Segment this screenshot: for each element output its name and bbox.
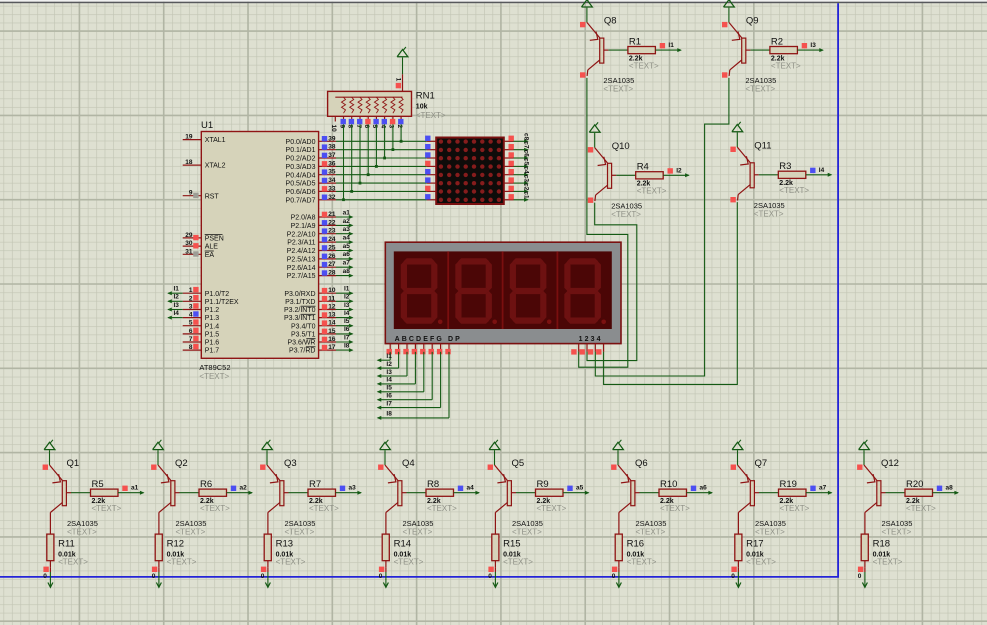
- svg-text:Q2: Q2: [175, 458, 188, 469]
- net label a4: [343, 235, 351, 242]
- svg-text:0: 0: [731, 573, 735, 580]
- svg-text:<TEXT>: <TEXT>: [403, 527, 433, 536]
- pin 30 (ALE): [183, 240, 219, 251]
- matrix right pin c8: [504, 136, 514, 142]
- wire R8 to net a4: [454, 491, 481, 495]
- wire 7seg segment to net I6: [377, 352, 433, 402]
- pin square below R14: [379, 567, 384, 572]
- net label I1: [344, 286, 350, 293]
- svg-text:<TEXT>: <TEXT>: [176, 527, 206, 536]
- svg-text:c3: c3: [522, 175, 529, 183]
- resistor R19: [759, 489, 806, 496]
- svg-text:P2.6/A14: P2.6/A14: [287, 265, 316, 272]
- net label I8: [344, 343, 350, 350]
- wire Q9 collector to 7seg digit 3: [595, 78, 729, 376]
- resistor R2: [750, 47, 797, 54]
- svg-text:P3.0/RXD: P3.0/RXD: [284, 291, 315, 298]
- svg-text:9: 9: [338, 125, 345, 129]
- type 2SA1035: [512, 519, 543, 528]
- wire P3.7 to net I8: [336, 348, 354, 352]
- RN1 pin 1: [394, 74, 402, 91]
- svg-text:P0.2/AD2: P0.2/AD2: [286, 156, 316, 163]
- power terminal Q5: [489, 440, 500, 450]
- power terminal Q1: [44, 440, 55, 450]
- svg-text:<TEXT>: <TEXT>: [660, 504, 690, 513]
- svg-text:12: 12: [328, 304, 336, 311]
- svg-text:13: 13: [328, 312, 336, 319]
- net label a8: [937, 485, 953, 492]
- matrix right pin c1: [504, 194, 514, 200]
- svg-text:11: 11: [328, 295, 335, 302]
- net label I3: [802, 42, 817, 49]
- svg-text:a4: a4: [343, 235, 351, 242]
- svg-text:<TEXT>: <TEXT>: [636, 527, 666, 536]
- svg-text:P0.5/AD5: P0.5/AD5: [286, 181, 316, 188]
- svg-text:<TEXT>: <TEXT>: [627, 558, 657, 567]
- svg-text:c6: c6: [522, 150, 529, 158]
- text placeholder Q12: [882, 527, 912, 536]
- svg-text:Q3: Q3: [284, 458, 297, 469]
- svg-text:19: 19: [185, 134, 193, 141]
- svg-text:3: 3: [189, 304, 193, 311]
- wire 7seg segment to net I7: [377, 352, 441, 410]
- svg-text:I1: I1: [386, 353, 392, 360]
- svg-text:<TEXT>: <TEXT>: [771, 62, 801, 71]
- svg-text:10: 10: [328, 287, 336, 294]
- value 0.01k: [167, 551, 185, 558]
- resistor R9: [516, 489, 563, 496]
- wire RN1 pin 8 to P0.6: [351, 124, 353, 191]
- text placeholder R7: [309, 504, 339, 513]
- net label I2: [386, 361, 392, 368]
- ground: [383, 580, 388, 588]
- svg-text:R16: R16: [627, 538, 644, 549]
- svg-text:<TEXT>: <TEXT>: [512, 527, 542, 536]
- RN1 pin 3: [388, 116, 396, 128]
- net label I1: [660, 42, 675, 49]
- text placeholder Q7: [755, 527, 785, 536]
- net label I6: [344, 326, 350, 333]
- wire R20 to net a8: [933, 491, 960, 495]
- resistor R6: [180, 489, 227, 496]
- text placeholder Q9: [745, 85, 775, 94]
- svg-text:c8: c8: [522, 133, 529, 141]
- wire P3.3 to net I4: [336, 316, 354, 320]
- value 2.2k: [92, 498, 106, 505]
- pin 11 (P3.1/TXD): [285, 295, 336, 306]
- svg-text:P2.4/A12: P2.4/A12: [287, 248, 316, 255]
- net label I7: [344, 334, 350, 341]
- RN1 pin 2: [396, 116, 404, 128]
- 7seg digit 4: [564, 258, 606, 324]
- net label I4: [386, 377, 392, 384]
- svg-text:<TEXT>: <TEXT>: [67, 527, 97, 536]
- transistor Q10 (2SA1035): [588, 133, 616, 203]
- power terminal Q3: [262, 440, 273, 450]
- svg-text:0: 0: [488, 573, 492, 580]
- svg-text:24: 24: [328, 236, 336, 243]
- svg-text:I6: I6: [344, 326, 350, 333]
- svg-text:P3.2/INT0: P3.2/INT0: [284, 307, 316, 314]
- svg-text:R13: R13: [276, 538, 293, 549]
- wire R18 to ground: [864, 567, 866, 580]
- svg-text:a7: a7: [819, 485, 827, 492]
- matrix left pin row 7: [425, 186, 436, 192]
- label R16: [627, 538, 644, 549]
- wire R12 to ground: [158, 567, 160, 580]
- wire R6 to net a2: [227, 491, 254, 495]
- svg-text:31: 31: [185, 248, 193, 255]
- svg-text:28: 28: [328, 270, 336, 277]
- net label a3: [343, 226, 351, 233]
- net label I4: [174, 310, 180, 317]
- svg-text:0: 0: [43, 573, 47, 580]
- net label I3: [174, 302, 180, 309]
- ground: [156, 580, 161, 588]
- svg-text:<TEXT>: <TEXT>: [629, 62, 659, 71]
- svg-text:2: 2: [396, 125, 403, 129]
- power terminal Q12: [859, 440, 870, 450]
- junction: [400, 140, 403, 143]
- svg-text:c1: c1: [522, 191, 529, 199]
- wire P3.0 to net I1: [336, 291, 354, 295]
- net label 0 (Q5 ground): [488, 573, 492, 580]
- 7seg digit 2: [455, 258, 497, 324]
- label Q5: [512, 458, 525, 469]
- net label a1: [343, 209, 351, 216]
- svg-text:ALE: ALE: [205, 244, 219, 251]
- matrix left pin row 1: [425, 136, 436, 142]
- svg-text:P1.2: P1.2: [205, 307, 220, 314]
- svg-text:R18: R18: [873, 538, 890, 549]
- svg-text:<TEXT>: <TEXT>: [906, 504, 936, 513]
- svg-text:P2.0/A8: P2.0/A8: [291, 215, 316, 222]
- svg-text:<TEXT>: <TEXT>: [637, 187, 667, 196]
- svg-text:Q4: Q4: [402, 458, 415, 469]
- svg-text:a1: a1: [131, 485, 139, 492]
- text placeholder R11: [58, 558, 88, 567]
- type 2SA1035: [754, 201, 785, 210]
- svg-text:3: 3: [388, 125, 395, 129]
- pin square below R13: [261, 567, 266, 572]
- wire RN1 pin 4 to P0.2: [384, 124, 386, 158]
- svg-text:39: 39: [328, 135, 336, 142]
- power terminal above RN1: [397, 47, 408, 57]
- svg-text:R1: R1: [629, 36, 641, 47]
- matrix right pin c4: [504, 169, 514, 175]
- svg-text:34: 34: [328, 177, 336, 184]
- svg-text:P1.7: P1.7: [205, 348, 220, 355]
- svg-text:I3: I3: [810, 42, 816, 49]
- wire P3.4 to net I5: [336, 324, 354, 328]
- wire 7seg segment to net I1: [377, 352, 391, 362]
- pin 31 (EA): [183, 248, 215, 259]
- wire P3.2 to net I3: [336, 308, 354, 312]
- net label a6: [691, 485, 707, 492]
- type 2SA1035: [611, 201, 642, 210]
- resistor R7: [289, 489, 336, 496]
- svg-text:<TEXT>: <TEXT>: [416, 111, 446, 120]
- svg-text:<TEXT>: <TEXT>: [427, 504, 457, 513]
- svg-text:37: 37: [328, 152, 336, 159]
- svg-text:<TEXT>: <TEXT>: [754, 209, 784, 218]
- wire P2.5 to net a6: [336, 257, 353, 261]
- 7seg digit select pin 2: [580, 344, 588, 355]
- text placeholder U1: [199, 372, 229, 381]
- wire RN1 pin 9 to P0.7: [343, 124, 345, 200]
- svg-text:a3: a3: [343, 226, 351, 233]
- transistor Q4 (2SA1035): [378, 450, 406, 512]
- transistor Q11 (2SA1035): [730, 132, 758, 202]
- transistor Q2 (2SA1035): [151, 450, 179, 512]
- svg-text:33: 33: [328, 185, 336, 192]
- svg-text:7: 7: [355, 125, 362, 129]
- wire P1.0 to net I1: [167, 291, 183, 295]
- 7seg digit 1: [401, 258, 443, 324]
- svg-text:<TEXT>: <TEXT>: [611, 210, 641, 219]
- label R7: [309, 479, 321, 490]
- svg-text:Q5: Q5: [512, 458, 525, 469]
- pin square below R16: [612, 567, 617, 572]
- resistor R1: [608, 47, 655, 54]
- svg-text:Q12: Q12: [881, 458, 899, 469]
- power terminal Q10: [589, 122, 600, 132]
- matrix right pin c6: [504, 152, 514, 158]
- LED matrix display MATRIX-8X8: [436, 138, 504, 205]
- wire Q11 collector to 7seg digit 4: [604, 202, 738, 384]
- svg-text:30: 30: [185, 240, 193, 247]
- label R17: [746, 538, 763, 549]
- svg-text:R4: R4: [637, 162, 649, 173]
- 7seg digit select pin 3: [588, 344, 596, 355]
- matrix left pin row 4: [425, 161, 436, 167]
- svg-text:<TEXT>: <TEXT>: [199, 372, 229, 381]
- svg-text:AT89C52: AT89C52: [199, 363, 230, 372]
- wire matrix to net c1: [514, 198, 529, 202]
- label R5: [92, 479, 104, 490]
- text placeholder Q5: [512, 527, 542, 536]
- net label c3: [522, 175, 529, 183]
- net label a7: [343, 260, 351, 267]
- value 0.01k: [276, 551, 294, 558]
- transistor Q9 (2SA1035): [722, 8, 750, 78]
- net label 0 (Q1 ground): [43, 573, 47, 580]
- resistor R12: [155, 512, 162, 567]
- label Q8: [604, 16, 617, 27]
- net label 0 (Q2 ground): [152, 573, 156, 580]
- wire P0.2 bus to matrix row: [336, 157, 427, 159]
- ground: [265, 580, 270, 588]
- net label 0 (Q7 ground): [731, 573, 735, 580]
- label R8: [427, 479, 439, 490]
- svg-text:<TEXT>: <TEXT>: [745, 85, 775, 94]
- text placeholder R9: [537, 504, 567, 513]
- pin 33 (P0.6/AD6): [286, 185, 336, 196]
- label R3: [779, 161, 791, 172]
- power terminal Q6: [613, 440, 624, 450]
- svg-text:a3: a3: [349, 485, 357, 492]
- transistor Q6 (2SA1035): [611, 450, 639, 512]
- label R14: [394, 538, 411, 549]
- svg-text:I7: I7: [386, 400, 392, 407]
- matrix left pin row 3: [425, 152, 436, 158]
- pin 10 (P3.0/RXD): [284, 287, 336, 298]
- 7seg digit select pin 4: [596, 344, 604, 355]
- pin 2 (P1.1/T2EX): [183, 295, 239, 306]
- pin 8 (P1.7): [183, 344, 220, 355]
- pin 21 (P2.0/A8): [291, 211, 336, 222]
- svg-text:P2.1/A9: P2.1/A9: [291, 223, 316, 230]
- text placeholder R4: [637, 187, 667, 196]
- svg-text:I3: I3: [174, 302, 180, 309]
- pin 39 (P0.0/AD0): [286, 135, 336, 146]
- wire R7 to net a3: [336, 491, 363, 495]
- svg-text:P1.1/T2EX: P1.1/T2EX: [205, 299, 239, 306]
- text placeholder Q4: [403, 527, 433, 536]
- svg-text:R3: R3: [779, 161, 791, 172]
- svg-text:a4: a4: [467, 485, 475, 492]
- value 0.01k: [394, 551, 412, 558]
- type 2SA1035: [67, 519, 98, 528]
- svg-text:6: 6: [189, 328, 193, 335]
- text placeholder R16: [627, 558, 657, 567]
- text placeholder R6: [200, 504, 230, 513]
- wire R16 to ground: [618, 567, 620, 580]
- svg-text:a6: a6: [700, 485, 708, 492]
- svg-text:P0.7/AD7: P0.7/AD7: [286, 197, 316, 204]
- label R2: [771, 36, 783, 47]
- svg-text:a5: a5: [343, 243, 351, 250]
- pin 4 (P1.3): [183, 311, 220, 322]
- pin 24 (P2.3/A11): [287, 236, 336, 247]
- RN1 pin 10: [330, 116, 337, 132]
- transistor Q7 (2SA1035): [731, 450, 759, 512]
- wire R4 to net I2: [663, 173, 690, 177]
- resistor network RN1 body: [328, 91, 412, 116]
- svg-text:<TEXT>: <TEXT>: [882, 527, 912, 536]
- net label I1: [174, 286, 180, 293]
- pin 18 (XTAL2): [183, 159, 226, 170]
- wire R19 to net a7: [806, 491, 833, 495]
- pin square below R12: [152, 567, 157, 572]
- value 2.2k: [906, 498, 920, 505]
- text placeholder R20: [906, 504, 936, 513]
- net label c7: [522, 141, 529, 149]
- text placeholder R10: [660, 504, 690, 513]
- svg-text:38: 38: [328, 144, 336, 151]
- svg-text:R9: R9: [537, 479, 549, 490]
- svg-text:<TEXT>: <TEXT>: [755, 527, 785, 536]
- svg-text:35: 35: [328, 169, 336, 176]
- text placeholder Q3: [285, 527, 315, 536]
- svg-text:4: 4: [189, 312, 193, 319]
- wire R1 to net I1: [655, 48, 682, 52]
- pin square below R15: [488, 567, 493, 572]
- type 2SA1035: [882, 519, 913, 528]
- svg-text:26: 26: [328, 253, 336, 260]
- svg-text:P3.1/TXD: P3.1/TXD: [285, 299, 315, 306]
- svg-text:Q8: Q8: [604, 16, 617, 27]
- svg-text:<TEXT>: <TEXT>: [780, 504, 810, 513]
- wire R5 to net a1: [118, 491, 145, 495]
- text placeholder R12: [167, 558, 197, 567]
- net label I6: [386, 393, 392, 400]
- svg-text:P2.5/A13: P2.5/A13: [287, 257, 316, 264]
- wire P2.0 to net a1: [336, 215, 353, 219]
- svg-text:R2: R2: [771, 36, 783, 47]
- net label 0 (Q4 ground): [379, 573, 383, 580]
- pin 12 (P3.2/INT0): [284, 304, 336, 315]
- net label I2: [668, 167, 683, 174]
- svg-text:0: 0: [858, 573, 862, 580]
- matrix right pin c2: [504, 186, 514, 192]
- svg-text:<TEXT>: <TEXT>: [603, 85, 633, 94]
- ground: [616, 580, 621, 588]
- 7seg segment pin A: [387, 344, 392, 355]
- svg-text:I4: I4: [174, 310, 180, 317]
- svg-text:a8: a8: [946, 485, 954, 492]
- 7seg segment pin G: [437, 344, 442, 355]
- svg-text:5: 5: [371, 125, 378, 129]
- net label a3: [340, 485, 356, 492]
- wire P0.7 bus to matrix row: [336, 199, 427, 201]
- svg-text:15: 15: [328, 328, 336, 335]
- value 10k: [416, 104, 428, 111]
- pin 22 (P2.1/A9): [291, 219, 336, 230]
- svg-text:27: 27: [328, 261, 336, 268]
- pin 23 (P2.2/A10): [287, 228, 336, 239]
- wire RN1 pin1 to power: [402, 58, 404, 75]
- svg-text:P1.5: P1.5: [205, 332, 220, 339]
- svg-text:P2.2/A10: P2.2/A10: [287, 231, 316, 238]
- resistor R5: [71, 489, 118, 496]
- svg-text:I2: I2: [344, 294, 350, 301]
- text placeholder R3: [779, 186, 809, 195]
- net label a7: [810, 485, 826, 492]
- wire RN1 pin 3 to P0.1: [392, 124, 394, 149]
- svg-text:2: 2: [189, 295, 193, 302]
- svg-text:R6: R6: [200, 479, 212, 490]
- matrix left pin row 5: [425, 169, 436, 175]
- svg-text:R19: R19: [780, 479, 797, 490]
- svg-text:I7: I7: [344, 334, 350, 341]
- 7seg segment pin DP: [445, 344, 450, 355]
- pin 38 (P0.1/AD1): [286, 144, 336, 155]
- wire P2.4 to net a5: [336, 249, 353, 253]
- 7seg segment pin F: [429, 344, 434, 355]
- power terminal Q9: [724, 0, 735, 7]
- label R6: [200, 479, 212, 490]
- junction: [383, 157, 386, 160]
- svg-text:5: 5: [189, 320, 193, 327]
- label R1: [629, 36, 641, 47]
- label U1: [201, 120, 213, 131]
- svg-text:I8: I8: [386, 411, 392, 418]
- svg-text:R12: R12: [167, 538, 184, 549]
- svg-text:c2: c2: [522, 183, 529, 191]
- svg-text:R11: R11: [58, 538, 75, 549]
- wire R17 to ground: [737, 567, 739, 580]
- power terminal Q4: [380, 440, 391, 450]
- svg-text:18: 18: [185, 159, 193, 166]
- net label c4: [522, 166, 529, 174]
- svg-text:29: 29: [185, 232, 193, 239]
- label Q4: [402, 458, 415, 469]
- svg-text:<TEXT>: <TEXT>: [58, 558, 88, 567]
- type 2SA1035: [176, 519, 207, 528]
- junction: [342, 198, 345, 201]
- wire matrix to net c6: [514, 156, 529, 160]
